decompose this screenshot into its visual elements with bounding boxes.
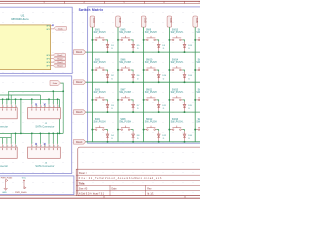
component U1 RP2040-Zero <box>0 14 51 70</box>
svg-text:SW_PUSH: SW_PUSH <box>145 62 157 64</box>
title block surround <box>78 147 203 196</box>
junction D4/row <box>107 141 109 143</box>
svg-text:1: 1 <box>3 146 4 148</box>
global label Row3 (matrix) <box>74 110 86 115</box>
wire column5 <box>194 27 196 142</box>
svg-text:Date:: Date: <box>112 187 118 190</box>
svg-text:SW_PUSH: SW_PUSH <box>196 92 200 94</box>
junction D17/row <box>209 51 211 53</box>
diode D9 <box>157 42 166 53</box>
svg-text:Rev:: Rev: <box>147 188 152 190</box>
title block text Sheet <box>79 172 87 175</box>
diode D13 <box>183 42 193 53</box>
junction D11/row <box>158 111 160 113</box>
junction SW17/col <box>194 39 196 41</box>
frame bottom border <box>0 196 200 199</box>
connector J3 SATA <box>0 144 17 168</box>
wire bus W2 <box>0 94 40 96</box>
svg-text:SW_PUSH: SW_PUSH <box>171 62 183 64</box>
diode D10 <box>157 72 167 83</box>
junction D3/row <box>107 111 109 113</box>
pin GP1 of U1 <box>46 29 54 31</box>
svg-text:3: 3 <box>41 146 42 148</box>
title block table <box>76 169 202 195</box>
wire row4 bus <box>86 141 201 143</box>
global label Col4 (vertical pill) <box>167 16 172 27</box>
svg-text:SW_PUSH: SW_PUSH <box>94 62 106 64</box>
svg-text:SW_PUSH: SW_PUSH <box>145 122 157 124</box>
junction SW2/col <box>91 69 93 71</box>
global label Row2 (at U1) <box>53 57 65 60</box>
diode D5 <box>132 42 141 53</box>
wire inter-connector verticals <box>21 99 60 133</box>
pin GP0 of U1 (no-connect) <box>46 24 53 27</box>
junction D1/row <box>107 51 109 53</box>
wire SW3 to D3 <box>105 100 107 102</box>
junction D8/row <box>132 141 134 143</box>
junction SW8/col <box>117 129 119 131</box>
diode D12 <box>157 131 167 142</box>
svg-text:5: 5 <box>49 146 50 148</box>
svg-text:7: 7 <box>58 106 59 108</box>
svg-text:PWR_FLAG: PWR_FLAG <box>1 177 13 180</box>
svg-text:Row2: Row2 <box>57 58 63 60</box>
junction SW13/col <box>168 39 170 41</box>
wire row1 bus <box>86 51 201 53</box>
pin GP5 of U1 <box>46 59 53 61</box>
wire SW17 to D17 <box>208 40 210 42</box>
connector J1 SATA <box>0 104 17 128</box>
wire SW2 to D2 <box>105 70 107 72</box>
switch SW6 SW_PUSH <box>118 60 131 71</box>
junction SW12/col <box>143 129 145 131</box>
wire SW4 to D4 <box>105 130 107 132</box>
switch SW4 SW_PUSH <box>92 119 105 130</box>
junctions row1 buses <box>2 90 64 100</box>
junction D5/row <box>132 51 134 53</box>
junction SW11/col <box>143 99 145 101</box>
wire SW9 to D9 <box>157 40 159 42</box>
wire SW19 to D19 <box>208 100 210 102</box>
svg-text:1: 1 <box>3 106 4 108</box>
diode D14 <box>183 72 193 83</box>
junction SW18/col <box>194 69 196 71</box>
svg-text:VCC: VCC <box>22 178 27 180</box>
diode D17 <box>209 42 219 53</box>
junction D12/row <box>158 141 160 143</box>
junction D16/row <box>184 141 186 143</box>
switch SW12 SW_PUSH <box>144 119 157 130</box>
svg-text:3: 3 <box>41 106 42 108</box>
diode D7 <box>132 102 141 113</box>
hierarchical sheet MCU (RP2040) <box>0 7 72 73</box>
diode D15 <box>183 102 193 113</box>
wire column1 <box>91 27 93 142</box>
wire drops to J1 <box>3 95 16 104</box>
switch SW3 SW_PUSH <box>92 90 105 101</box>
wire SW7 to D7 <box>131 100 133 102</box>
wire drops to J3 <box>3 133 16 144</box>
svg-text:3: 3 <box>12 106 13 108</box>
svg-text:GP0: GP0 <box>46 26 50 28</box>
switch SW16 SW_PUSH <box>169 119 182 130</box>
title block text Title <box>79 181 85 185</box>
wire bus W4 row2 <box>0 137 11 139</box>
junction D6/row <box>132 81 134 83</box>
wire SW18 to D18 <box>208 70 210 72</box>
svg-text:Row1: Row1 <box>76 51 83 54</box>
switch SW19 SW_PUSH <box>195 90 208 101</box>
wire Data drop <box>61 83 64 133</box>
wire SW12 to D12 <box>157 130 159 132</box>
diode D11 <box>157 102 167 113</box>
svg-text:GP1: GP1 <box>46 29 50 31</box>
svg-text:1: 1 <box>32 146 33 148</box>
wire SW13 to D13 <box>182 40 184 42</box>
svg-text:SW_PUSH: SW_PUSH <box>145 32 157 34</box>
svg-text:SATA Connector: SATA Connector <box>35 126 54 129</box>
svg-text:4: 4 <box>45 106 46 108</box>
junctions row2 bus <box>15 133 61 135</box>
svg-text:Size: A5: Size: A5 <box>79 187 88 190</box>
junction SW7/col <box>117 99 119 101</box>
switch SW8 SW_PUSH <box>118 119 131 130</box>
global label Col5 (vertical pill) <box>193 16 198 27</box>
wire SW14 to D14 <box>182 70 184 72</box>
svg-text:7: 7 <box>58 146 59 148</box>
svg-text:GP4: GP4 <box>46 55 50 57</box>
wire SW20 to D20 <box>208 130 210 132</box>
wire SW8 to D8 <box>131 130 133 132</box>
junction D10/row <box>158 81 160 83</box>
switch SW7 SW_PUSH <box>118 90 131 101</box>
svg-text:GP5: GP5 <box>46 59 50 61</box>
svg-text:4: 4 <box>16 106 17 108</box>
svg-text:Title:: Title: <box>79 181 85 185</box>
power flag PWR_FLAG on GND <box>1 177 13 189</box>
wire SW10 to D10 <box>157 70 159 72</box>
global label Data (at U1) <box>54 26 66 30</box>
diode D19 <box>209 102 219 113</box>
diode D3 <box>106 102 115 113</box>
svg-text:KiCad E.D.A. kicad 7.0.1: KiCad E.D.A. kicad 7.0.1 <box>79 193 105 196</box>
svg-text:Col1: Col1 <box>92 18 95 24</box>
pin GP7 of U1 <box>46 66 53 68</box>
svg-text:SW_PUSH: SW_PUSH <box>171 32 183 34</box>
global label Row1 (at U1) <box>53 54 65 57</box>
junction D19/row <box>209 111 211 113</box>
wire row2 bus <box>86 81 201 83</box>
power flag PWR_FLAG on VCC <box>15 187 27 194</box>
svg-text:Row3: Row3 <box>57 62 63 64</box>
wire column3 <box>143 27 145 142</box>
wire SW6 to D6 <box>131 70 133 72</box>
svg-text:GND: GND <box>2 192 7 194</box>
junction D14/row <box>184 81 186 83</box>
ground GND <box>2 188 8 193</box>
switch SW14 SW_PUSH <box>169 60 182 71</box>
svg-text:SATA Connector: SATA Connector <box>0 126 8 129</box>
diode D2 <box>106 72 115 83</box>
svg-text:Row1: Row1 <box>57 55 63 57</box>
junction SW3/col <box>91 99 93 101</box>
global label Row2 (matrix) <box>74 80 86 85</box>
title block text KiCad <box>79 193 155 196</box>
global label Col3 (vertical pill) <box>141 16 146 27</box>
svg-text:Row3: Row3 <box>76 111 83 114</box>
junction D20/row <box>209 141 211 143</box>
pin GP6 of U1 <box>46 62 53 64</box>
junction SW5/col <box>117 39 119 41</box>
power VCC <box>22 178 27 187</box>
wire bus W3 <box>0 98 60 100</box>
global label Row3 (at U1) <box>53 61 65 64</box>
switch SW20 SW_PUSH <box>195 119 208 130</box>
junction SW4/col <box>91 129 93 131</box>
junction SW6/col <box>117 69 119 71</box>
svg-text:SW_PUSH: SW_PUSH <box>94 122 106 124</box>
svg-text:SW_PUSH: SW_PUSH <box>119 92 131 94</box>
junction SW9/col <box>143 39 145 41</box>
svg-text:Row4: Row4 <box>57 65 63 67</box>
svg-text:SW_PUSH: SW_PUSH <box>196 122 200 124</box>
hierarchical sheet Power <box>0 176 74 195</box>
svg-text:SW_PUSH: SW_PUSH <box>94 92 106 94</box>
junction D18/row <box>209 81 211 83</box>
svg-text:SW_PUSH: SW_PUSH <box>196 62 200 64</box>
switch SW1 SW_PUSH <box>92 30 105 41</box>
svg-text:SW_PUSH: SW_PUSH <box>171 122 183 124</box>
svg-text:SW_PUSH: SW_PUSH <box>119 122 131 124</box>
svg-text:SW_PUSH: SW_PUSH <box>145 92 157 94</box>
wire SW11 to D11 <box>157 100 159 102</box>
hierarchical sheet Connectors <box>0 76 72 174</box>
wire SW16 to D16 <box>182 130 184 132</box>
frame top border <box>0 1 200 4</box>
svg-text:5: 5 <box>49 106 50 108</box>
svg-text:GP6: GP6 <box>46 62 50 64</box>
hierarchical sheet Switch Matrix <box>79 7 202 143</box>
wire SW5 to D5 <box>131 40 133 42</box>
svg-text:GP7: GP7 <box>46 66 50 68</box>
svg-text:SW_PUSH: SW_PUSH <box>119 32 131 34</box>
junction SW14/col <box>168 69 170 71</box>
svg-text:2: 2 <box>37 146 38 148</box>
junction SW1/col <box>91 39 93 41</box>
svg-text:SW_PUSH: SW_PUSH <box>119 62 131 64</box>
svg-text:2: 2 <box>7 106 8 108</box>
wire SW1 to D1 <box>105 40 107 42</box>
switch SW13 SW_PUSH <box>169 30 182 41</box>
diode D8 <box>132 131 141 142</box>
svg-text:3: 3 <box>12 146 13 148</box>
diode D4 <box>106 131 115 142</box>
switch SW9 SW_PUSH <box>144 30 157 41</box>
global label Row1 (matrix) <box>74 50 86 55</box>
svg-text:Sheet: /: Sheet: / <box>79 172 87 175</box>
svg-text:Row2: Row2 <box>76 81 83 84</box>
diode D6 <box>132 72 141 83</box>
global label Row4 (matrix) <box>74 140 86 145</box>
svg-text:SATA Connector: SATA Connector <box>0 165 8 168</box>
switch SW10 SW_PUSH <box>144 60 157 71</box>
switch SW11 SW_PUSH <box>144 90 157 101</box>
wire row3 bus <box>86 111 201 113</box>
svg-text:2: 2 <box>37 106 38 108</box>
svg-text:1: 1 <box>32 106 33 108</box>
svg-text:Row4: Row4 <box>76 141 83 144</box>
junction D7/row <box>132 111 134 113</box>
connector J2 SATA <box>28 104 61 129</box>
svg-text:File: 21_TeValVoLu2_AssembleMa: File: 21_TeValVoLu2_AssembleMain.kicad_s… <box>79 177 162 180</box>
svg-text:4: 4 <box>16 146 17 148</box>
svg-text:Id: 1/1: Id: 1/1 <box>147 194 154 196</box>
switch SW2 SW_PUSH <box>92 60 105 71</box>
diode D20 <box>209 131 219 142</box>
wire drops to J2 <box>32 91 58 104</box>
svg-text:PWR_FLAG: PWR_FLAG <box>15 191 27 194</box>
junction SW15/col <box>168 99 170 101</box>
svg-text:6: 6 <box>54 106 55 108</box>
wire column4 <box>168 27 170 142</box>
wire bus H1 <box>9 91 64 99</box>
connector J4 SATA <box>28 143 61 168</box>
svg-text:Switch Matrix: Switch Matrix <box>79 8 104 12</box>
global label Col1 (vertical pill) <box>90 16 95 27</box>
svg-text:SW_PUSH: SW_PUSH <box>171 92 183 94</box>
title block text Size/Date <box>79 187 152 190</box>
junction D13/row <box>184 51 186 53</box>
svg-text:4: 4 <box>45 146 46 148</box>
svg-text:SW_PUSH: SW_PUSH <box>196 32 200 34</box>
svg-text:Col2: Col2 <box>118 18 121 24</box>
switch SW17 SW_PUSH <box>195 30 208 41</box>
svg-text:SW_PUSH: SW_PUSH <box>94 32 106 34</box>
junction SW19/col <box>194 99 196 101</box>
wire bus H2 row2 <box>0 132 63 134</box>
global label Data (connector sheet) <box>50 81 61 86</box>
diode D1 <box>106 42 115 53</box>
junction SW20/col <box>194 129 196 131</box>
wire SW15 to D15 <box>182 100 184 102</box>
svg-text:SATA Connector: SATA Connector <box>35 165 54 168</box>
pin GP4 of U1 <box>46 55 53 57</box>
svg-text:Col4: Col4 <box>169 18 172 24</box>
svg-text:RP2040-Zero: RP2040-Zero <box>12 17 29 21</box>
title block text File <box>79 177 162 180</box>
junction D9/row <box>158 51 160 53</box>
svg-text:Col5: Col5 <box>195 18 198 24</box>
svg-text:Col3: Col3 <box>143 18 146 24</box>
svg-text:6: 6 <box>54 146 55 148</box>
switch SW5 SW_PUSH <box>118 30 131 41</box>
junction D2/row <box>107 81 109 83</box>
switch SW18 SW_PUSH <box>195 60 208 71</box>
switch SW15 SW_PUSH <box>169 90 182 101</box>
wire column2 <box>117 27 119 142</box>
junction SW10/col <box>143 69 145 71</box>
diode D16 <box>183 131 193 142</box>
global label Row4 (at U1) <box>53 64 65 67</box>
junction D15/row <box>184 111 186 113</box>
global label Col2 (vertical pill) <box>116 16 121 27</box>
wire drops to J4 <box>32 133 58 144</box>
svg-text:2: 2 <box>7 146 8 148</box>
diode D18 <box>209 72 219 83</box>
junction SW16/col <box>168 129 170 131</box>
